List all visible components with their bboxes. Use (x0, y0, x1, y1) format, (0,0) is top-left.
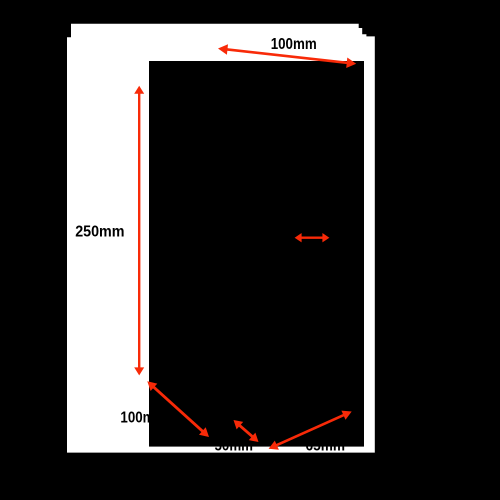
arrow 50mm diagonal bottom-middle (234, 420, 259, 442)
svg-text:100mm: 100mm (120, 410, 166, 427)
arrow 250mm left (134, 86, 144, 376)
arrow 100mm diagonal bottom-left (147, 381, 209, 437)
svg-text:50mm: 50mm (215, 437, 254, 454)
svg-text:65mm: 65mm (306, 437, 346, 454)
svg-text:250mm: 250mm (75, 223, 124, 240)
white sheet (67, 24, 375, 453)
arrow 65mm diagonal bottom-right (269, 411, 352, 450)
arrow 100mm top (218, 44, 356, 68)
svg-text:100mm: 100mm (271, 36, 317, 53)
black panel (149, 61, 364, 447)
arrow small horizontal (295, 233, 330, 242)
